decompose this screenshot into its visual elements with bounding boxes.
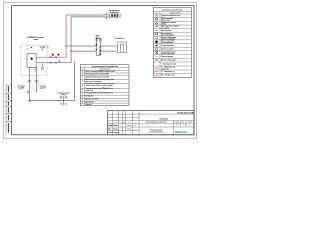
svg-text:№док: №док: [123, 122, 127, 124]
floor heating coil: [113, 42, 126, 52]
svg-text:ГП-028-ИОС4.ОВ: ГП-028-ИОС4.ОВ: [177, 112, 194, 115]
floor loop return pipe: [100, 50, 113, 52]
drawing name: [146, 121, 167, 134]
sensor mark: [27, 49, 28, 51]
legend symbols: [155, 15, 158, 61]
svg-text:стене, 2 шт: стене, 2 шт: [85, 90, 93, 92]
node tick: [59, 100, 60, 101]
cold water pipe: [28, 67, 30, 100]
radiator: [110, 14, 121, 18]
radiator valve supply: [106, 14, 107, 15]
shutoff valve V3: [50, 62, 52, 64]
mixing valve a: [96, 43, 98, 45]
svg-text:отопления: отопления: [161, 68, 169, 70]
revision header row: [109, 122, 137, 124]
svg-text:ЖК т/д, 5шт: ЖК т/д, 5шт: [85, 96, 93, 98]
coil return stub: [113, 51, 116, 52]
svg-text:г. Москва: г. Москва: [159, 118, 169, 120]
svg-text:наружного воздуха: наружного воздуха: [161, 38, 175, 40]
svg-text:Петров: Петров: [113, 129, 118, 131]
svg-text:Обозначение труб: Обозначение труб: [163, 64, 176, 66]
pump arrow: [100, 38, 102, 41]
svg-text:Теплый пол: Теплый пол: [114, 37, 124, 40]
svg-text:Датчик температуры: Датчик температуры: [161, 59, 177, 61]
mixing unit: [96, 38, 100, 55]
svg-text:электроприводом: электроприводом: [161, 35, 174, 37]
svg-text:клапан: клапан: [161, 24, 166, 26]
svg-text:системы отопления: системы отопления: [149, 132, 164, 134]
svg-text:отопление: отопление: [110, 12, 119, 14]
left margin stamp column: [6, 85, 12, 135]
legend table frame: [153, 8, 191, 78]
cold water valve: [27, 80, 31, 82]
specification row numbers: [82, 71, 84, 104]
svg-text:клапан с приводом: клапан с приводом: [161, 53, 175, 55]
svg-text:вода В1: вода В1: [18, 87, 24, 89]
svg-text:07.15: 07.15: [133, 129, 136, 131]
title block grid: [107, 111, 194, 135]
radiator valve return: [106, 18, 107, 19]
mixing unit pump: [99, 38, 102, 41]
svg-text:Наименование: Наименование: [170, 12, 181, 14]
svg-text:для систем отопления: для систем отопления: [85, 81, 101, 83]
svg-text:Дата: Дата: [135, 122, 138, 124]
node B1: [27, 91, 28, 92]
mixing valve c: [99, 46, 101, 48]
company logo: [175, 130, 187, 134]
svg-text:Группа безопасности котла 3 ба: Группа безопасности котла 3 бар: [85, 76, 109, 78]
junction: [29, 100, 31, 101]
svg-text:Пров.: Пров.: [108, 129, 112, 131]
dates: [133, 125, 136, 130]
svg-text:10: 10: [82, 102, 84, 104]
svg-text:Холодная: Холодная: [17, 85, 25, 87]
meter assembly: [60, 96, 67, 106]
ground loop pipe vertical: [73, 62, 75, 101]
title block frame: [107, 111, 194, 135]
legend texts: [161, 14, 180, 76]
thermometer on return: [59, 60, 61, 62]
svg-text:со спуском: со спуском: [161, 27, 169, 29]
controller dot: [31, 47, 32, 48]
specification row texts: [85, 70, 115, 106]
safety group: [41, 46, 45, 50]
node dot: [47, 46, 48, 47]
expansion tank: [41, 63, 44, 70]
floor loop supply pipe: [100, 45, 113, 47]
mixing unit flange marks: [96, 38, 98, 39]
sensor tap S1: [52, 54, 54, 56]
left margin vertical labels: [7, 86, 10, 133]
svg-text:Лист: Лист: [182, 121, 185, 123]
supply riser: [66, 15, 110, 57]
signatures: [127, 124, 131, 127]
hot water valve: [34, 80, 38, 82]
pump center dot: [99, 38, 102, 41]
tee node supply branch: [66, 45, 67, 46]
supply pipe from unit: [36, 56, 66, 58]
svg-text:Иванов: Иванов: [113, 125, 118, 127]
heat pump unit: [27, 54, 36, 68]
svg-text:Обвязка: Обвязка: [85, 104, 91, 106]
svg-text:Кол.уч: Кол.уч: [114, 122, 118, 124]
sheet outer border: [4, 2, 197, 139]
legend grid: [153, 11, 191, 77]
return pipe to unit: [36, 17, 110, 63]
svg-text:регулированием: регулированием: [161, 42, 173, 44]
pressure gauge: [34, 67, 36, 70]
svg-text:Условные обозначения: Условные обозначения: [162, 9, 182, 12]
svg-text:Датчики котловые: Датчики котловые: [85, 99, 98, 101]
svg-text:Изм: Изм: [109, 122, 111, 124]
mixing valve b: [96, 49, 98, 51]
specification table frame: [80, 65, 129, 106]
svg-text:вода Т3: вода Т3: [40, 87, 46, 89]
svg-text:насос с упр.: насос с упр.: [161, 20, 170, 22]
hot water pipe: [36, 67, 38, 91]
shutoff valve V4: [55, 62, 57, 64]
specification grid: [80, 68, 129, 106]
svg-text:МИЛОН: МИЛОН: [175, 130, 187, 134]
mixing valve d: [99, 52, 101, 54]
svg-text:Горячая: Горячая: [40, 85, 46, 87]
supply branch to mixing unit: [66, 45, 96, 47]
hot water outlet arrow: [36, 91, 38, 93]
ground loop pipe bottom: [29, 100, 74, 102]
svg-text:Сидоров: Сидоров: [113, 132, 119, 134]
boiler room dashed boundary: [21, 45, 47, 75]
svg-text:1: 1: [190, 125, 191, 127]
legend pipe samples: [155, 67, 159, 69]
svg-text:контур: контур: [61, 94, 66, 96]
svg-text:07.15: 07.15: [133, 125, 136, 127]
shutoff valve V1: [50, 56, 52, 58]
stage cells: [174, 121, 192, 123]
svg-text:Тепловая схема: Тепловая схема: [150, 130, 162, 132]
svg-text:1: 1: [183, 125, 184, 127]
svg-text:Наименование: Наименование: [100, 69, 111, 71]
shutoff valve V2: [55, 56, 57, 58]
svg-text:Листов: Листов: [188, 121, 193, 123]
svg-text:Стадия: Стадия: [174, 121, 179, 123]
signature rows: [108, 124, 119, 134]
svg-text:В1 - холодная вода: В1 - холодная вода: [161, 74, 175, 76]
mixing valve top: [96, 39, 98, 41]
svg-text:тепла: тепла: [33, 39, 39, 41]
drawing inner frame: [12, 6, 194, 135]
sensor tap S2: [58, 54, 60, 56]
tee node return branch: [71, 51, 72, 52]
svg-text:Гибкая подводка: Гибкая подводка: [161, 56, 173, 58]
return branch from mixing unit: [71, 50, 96, 52]
